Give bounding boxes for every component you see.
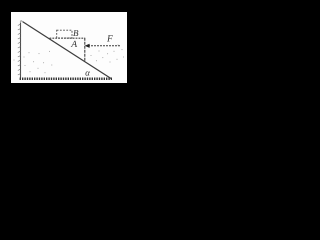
incline hypotenuse [21,21,111,79]
label B [73,30,78,36]
hatch ticks on left wall [18,24,21,75]
label alpha [85,71,90,75]
white figure panel [11,12,127,84]
block A right edge [84,38,86,62]
label A [71,41,77,47]
block A top edge [50,37,85,39]
scan noise speckles [14,45,125,74]
label F [107,35,113,41]
apex fade (scan fade at top corner) [18,18,23,23]
force arrow F head [85,44,90,48]
block B dashed box [57,30,72,38]
ground base line (dotted thick) [20,78,112,81]
force arrow F shaft [88,45,120,47]
incline left vertical edge [20,21,22,79]
